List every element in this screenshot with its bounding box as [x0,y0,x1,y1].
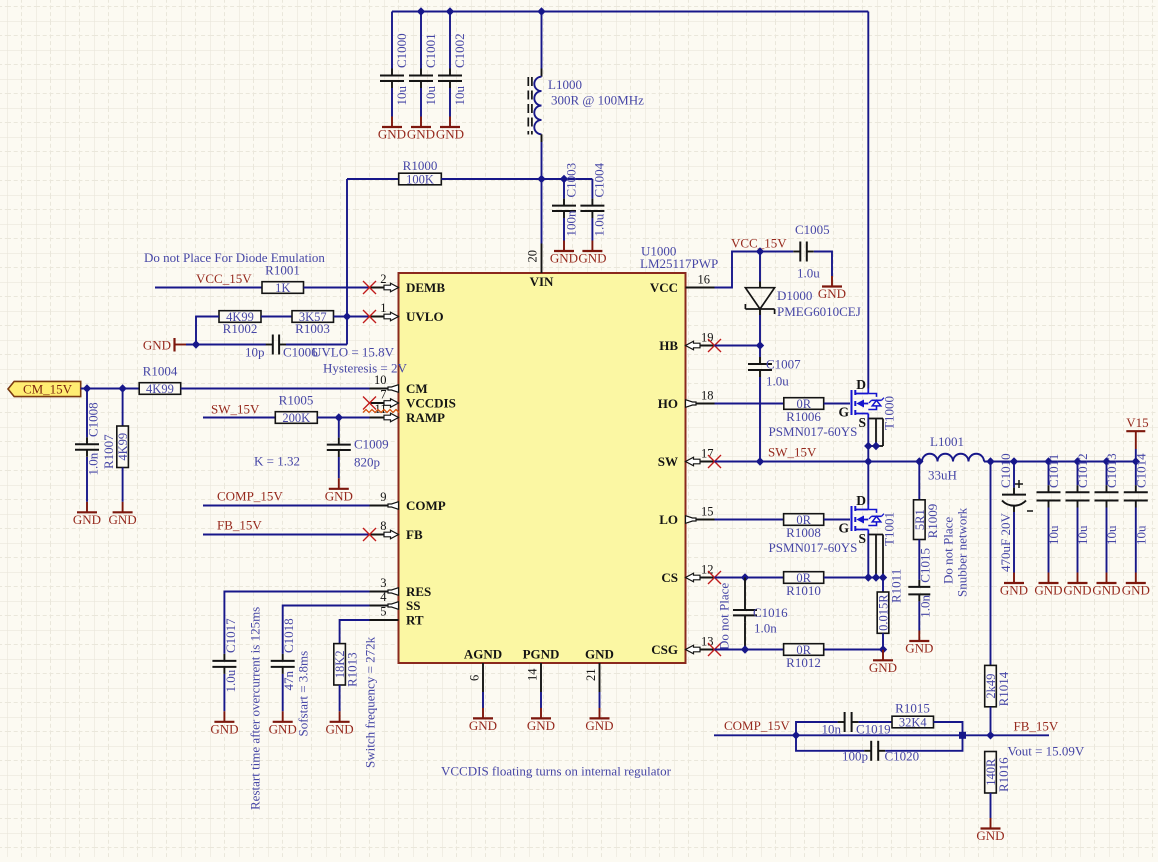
pin 17 SW [658,447,721,470]
svg-text:VCC_15V: VCC_15V [196,271,252,286]
pin 7 VCCDIS [363,388,456,411]
svg-text:GND: GND [1063,583,1091,598]
svg-text:GND: GND [818,286,846,301]
wire [282,674,284,711]
junction [792,731,995,739]
svg-text:33uH: 33uH [928,468,957,483]
wire [203,417,275,419]
svg-text:DEMB: DEMB [406,280,445,295]
svg-text:GND: GND [578,251,606,266]
svg-text:4K99: 4K99 [116,433,130,461]
svg-text:C1013: C1013 [1104,453,1119,488]
svg-text:PSMN017-60YS: PSMN017-60YS [769,424,858,439]
note [941,517,956,584]
wire FB row [714,734,1049,736]
wire C1002 drop [449,12,451,69]
svg-text:V15: V15 [1126,415,1148,430]
capacitor C1014 [1124,453,1149,545]
resistor R1009 [913,462,940,540]
svg-text:C1007: C1007 [766,357,801,372]
net label VCC_15V [731,236,787,251]
svg-text:32K4: 32K4 [899,716,928,730]
capacitor C1007 [748,346,801,389]
svg-text:GND: GND [1122,583,1150,598]
resistor R1006 [769,397,858,439]
pin 15 LO [659,505,714,528]
svg-text:AGND: AGND [464,647,502,662]
svg-text:HB: HB [659,338,678,353]
svg-text:R1008: R1008 [786,525,821,540]
capacitor C1015 [908,548,932,618]
svg-text:S: S [858,415,866,430]
wire SW [715,461,923,463]
pin 8 FB [363,519,423,542]
pin 9 COMP [370,490,446,513]
pin 5 RT [370,605,424,628]
junction [343,312,351,320]
svg-text:C1001: C1001 [423,33,438,68]
svg-text:RES: RES [406,584,431,599]
svg-text:GND: GND [976,828,1004,843]
wire [814,252,832,277]
wire C1000 drop [391,12,393,69]
note [248,607,263,810]
capacitor C1020 [842,741,919,764]
resistor R1007 [101,426,130,469]
wire [340,620,370,644]
svg-text:Do not Place: Do not Place [941,517,956,584]
ground [976,818,1004,843]
svg-text:CS: CS [661,570,678,585]
svg-text:FB_15V: FB_15V [217,518,262,533]
svg-text:11: 11 [374,402,386,416]
capacitor C1008 [75,402,101,475]
wire [81,388,140,390]
capacitor C1013 [1095,453,1120,545]
svg-text:C1009: C1009 [354,437,389,452]
svg-text:GND: GND [143,338,171,353]
junction [864,442,880,450]
wire [1135,449,1137,462]
resistor R1013 [333,644,359,687]
wire [563,218,565,241]
wire [86,389,88,438]
wire output rail [984,461,1136,463]
svg-text:820p: 820p [354,455,380,470]
svg-text:S: S [858,531,866,546]
diode D1000 [745,282,860,320]
svg-text:10n: 10n [822,722,842,737]
svg-text:CM_15V: CM_15V [23,381,73,396]
wire [304,287,370,289]
wire C1001 drop [420,12,422,69]
svg-text:C1015: C1015 [918,548,933,583]
svg-text:15: 15 [701,505,714,519]
resistor R1008 [769,513,858,555]
svg-text:14: 14 [526,668,540,681]
note [1008,744,1085,759]
svg-text:R1000: R1000 [403,158,438,173]
svg-text:C1000: C1000 [394,33,409,68]
wire [86,457,88,502]
svg-text:PGND: PGND [523,647,560,662]
svg-text:10u: 10u [452,86,467,106]
svg-text:R1001: R1001 [265,263,300,278]
transistor T1000 [838,377,896,430]
capacitor C1009 [327,437,389,470]
wire [122,468,124,502]
ground [1092,573,1120,598]
svg-text:6: 6 [468,675,482,681]
svg-text:Snubber network: Snubber network [955,507,970,597]
ground [407,117,435,142]
resistor R1003 [292,310,334,336]
svg-text:LM25117PWP: LM25117PWP [640,256,718,271]
wire VIN to pin 20 [541,179,543,244]
svg-text:L1001: L1001 [930,434,964,449]
svg-text:4: 4 [380,590,387,604]
svg-text:SW_15V: SW_15V [768,445,817,460]
wire [715,403,784,405]
pin 1 UVLO [363,301,444,324]
pin 11 RAMP [370,402,446,425]
junction [756,247,764,255]
svg-text:C1005: C1005 [795,222,830,237]
port CM_15V [8,381,81,396]
power V15 [1126,415,1148,449]
wire [715,345,761,347]
svg-text:RAMP: RAMP [406,410,445,425]
wire C1012 drop [1077,462,1079,486]
wire [1077,508,1079,573]
wire [1135,508,1137,573]
svg-text:GND: GND [1034,583,1062,598]
svg-text:GND: GND [407,127,435,142]
wire [203,534,370,536]
svg-text:GND: GND [269,721,297,736]
note [363,636,378,768]
svg-text:GND: GND [469,718,497,733]
inductor L1000 [528,69,644,143]
svg-text:D: D [856,377,866,392]
pin 12 CS [661,563,721,586]
svg-text:HO: HO [658,396,678,411]
wire [824,403,850,405]
wire [186,344,266,346]
capacitor C1012 [1066,453,1091,545]
note [717,583,732,650]
wire [181,388,370,390]
wire VIN top rail [392,11,868,13]
svg-text:C1018: C1018 [281,618,296,653]
svg-text:GND: GND [1092,583,1120,598]
svg-text:GND: GND [326,721,354,736]
ground [326,711,354,736]
svg-text:R1015: R1015 [895,701,930,716]
svg-text:R1009: R1009 [925,504,940,539]
wire [867,535,869,578]
svg-text:R1012: R1012 [786,655,821,670]
svg-text:PSMN017-60YS: PSMN017-60YS [769,540,858,555]
net label COMP_15V [724,718,790,733]
transistor T1001 [838,493,896,546]
T1000 source leads [868,419,883,447]
capacitor C1010 [998,453,1033,572]
svg-text:GND: GND [109,512,137,527]
svg-text:10p: 10p [245,345,265,360]
resistor R1004 [139,364,181,397]
note [254,454,300,469]
pin 2 DEMB [363,272,445,295]
wire [882,633,884,649]
ground [143,338,186,353]
svg-text:100K: 100K [406,173,434,187]
capacitor C1005 [793,222,829,281]
svg-text:C1012: C1012 [1075,453,1090,488]
svg-text:COMP_15V: COMP_15V [724,718,790,733]
svg-text:200K: 200K [282,411,310,425]
pin 6 AGND [464,647,502,709]
svg-text:5: 5 [380,605,386,619]
svg-text:1K: 1K [275,281,290,295]
note [441,764,672,779]
svg-text:C1008: C1008 [86,402,101,437]
wire [224,592,369,654]
wire C1011 drop [1048,462,1050,486]
svg-text:SW: SW [658,454,678,469]
note [323,361,407,376]
net label COMP_15V [217,489,283,504]
junction [986,457,1140,465]
wire [715,519,784,521]
junction [741,645,887,653]
junction [741,573,887,581]
ground [109,502,137,527]
svg-text:GND: GND [325,488,353,503]
svg-text:GND: GND [585,647,614,662]
svg-text:C1003: C1003 [563,163,578,198]
svg-text:C1004: C1004 [592,162,607,197]
ground [1122,573,1150,598]
ground [585,708,613,733]
wire [449,88,451,117]
wire [286,344,347,346]
note [955,507,970,597]
svg-text:16: 16 [698,273,711,287]
svg-text:PMEG6010CEJ: PMEG6010CEJ [777,304,861,319]
svg-text:1.0u: 1.0u [797,266,820,281]
wire [391,88,393,117]
svg-text:G: G [838,404,849,419]
svg-text:R1003: R1003 [295,321,330,336]
svg-text:C1017: C1017 [223,618,238,653]
ground [905,631,933,656]
resistor R1001 [262,263,304,296]
wire [759,252,761,282]
wire [715,649,884,651]
svg-text:C1011: C1011 [1046,454,1061,488]
capacitor C1002 [438,33,467,105]
resistor R1016 [984,752,1011,794]
svg-text:SS: SS [406,598,420,613]
capacitor C1011 [1037,454,1062,545]
resistor R1000 [399,158,442,187]
capacitor C1006 [245,335,318,360]
svg-text:R1013: R1013 [345,652,360,687]
wire [744,622,746,649]
svg-text:GND: GND [905,641,933,656]
wire [541,12,543,69]
wire [885,735,962,751]
resistor R1002 [219,310,261,336]
wire [1106,508,1108,573]
wire [918,601,920,630]
svg-text:100p: 100p [842,749,868,764]
net label VCC_15V [196,271,252,286]
wire [155,287,262,289]
ground [325,478,353,503]
pin 18 HO [658,389,715,412]
pin 4 SS [370,590,421,613]
svg-text:C1010: C1010 [998,453,1013,488]
pin 3 RES [370,576,432,599]
wire [541,142,543,179]
svg-text:1.0u: 1.0u [766,374,789,389]
svg-text:10u: 10u [423,86,438,106]
svg-text:C1002: C1002 [452,33,467,68]
wire C1013 drop [1106,462,1108,486]
wire [824,577,883,579]
junction [756,457,924,465]
wire [203,505,370,507]
svg-text:10u: 10u [394,86,409,106]
svg-text:CSG: CSG [651,642,678,657]
junction [756,341,764,349]
pin 19 HB [659,331,721,354]
resistor R1005 [275,393,317,426]
svg-text:GND: GND [436,127,464,142]
svg-text:GND: GND [210,721,238,736]
junction [192,340,200,348]
svg-text:LO: LO [659,512,678,527]
resistor R1012 [784,643,824,670]
svg-text:CM: CM [406,381,428,396]
ground [869,650,897,675]
svg-text:Hysteresis = 2V: Hysteresis = 2V [323,361,407,376]
wire [339,685,341,711]
wire [317,417,369,419]
wire [715,577,784,579]
resistor R1015 [892,701,934,730]
ground [469,708,497,733]
ground [378,117,406,142]
svg-text:R1016: R1016 [996,757,1011,792]
svg-text:GND: GND [585,718,613,733]
wire [441,178,592,180]
note [296,651,311,737]
wire [824,519,850,521]
wire [990,462,992,666]
compile-warning squiggle [363,410,399,413]
svg-text:GND: GND [869,660,897,675]
svg-text:GND: GND [1000,583,1028,598]
svg-text:21: 21 [584,669,598,682]
svg-text:FB_15V: FB_15V [1014,719,1059,734]
wire [283,606,370,654]
wire [918,540,920,580]
svg-text:VCC: VCC [650,280,678,295]
capacitor C1001 [409,33,438,105]
net label SW_15V [768,445,817,460]
svg-text:K = 1.32: K = 1.32 [254,454,300,469]
svg-text:GND: GND [550,251,578,266]
op-amp U1000 LM25117PWP body [399,273,686,663]
net label FB_15V [217,518,262,533]
svg-text:L1000: L1000 [548,77,582,92]
ground [269,711,297,736]
junction [537,175,568,183]
svg-text:FB: FB [406,527,423,542]
inductor L1001 [922,434,984,483]
resistor R1010 [784,571,824,598]
U1000 designator [641,244,676,259]
svg-text:G: G [838,520,849,535]
svg-text:Switch frequency = 272k: Switch frequency = 272k [363,636,378,768]
pin 20 VIN [526,244,555,290]
svg-text:R1002: R1002 [223,321,258,336]
capacitor C1003 [552,163,578,237]
wire [1013,512,1015,573]
pin 10 CM [370,373,428,396]
svg-text:Restart time after overcurrent: Restart time after overcurrent is 125ms [248,607,263,810]
capacitor C1004 [580,162,606,236]
wire [122,389,124,427]
svg-text:C1016: C1016 [753,605,788,620]
wire [1048,508,1050,573]
wire [759,377,761,462]
capacitor C1017 [212,618,238,693]
wire [223,674,225,711]
net label FB_15V [1014,719,1059,734]
svg-text:20: 20 [526,250,540,263]
T1001 source leads [868,535,883,578]
wire [990,707,992,736]
capacitor C1000 [380,33,409,105]
wire [334,316,370,318]
resistor R1014 [984,665,1011,706]
wire [347,178,399,180]
wire [934,722,963,735]
ground [527,708,555,733]
svg-text:VCCDIS: VCCDIS [406,396,456,411]
wire [591,218,593,241]
svg-text:R1011: R1011 [889,569,904,603]
svg-text:2: 2 [380,272,386,286]
wire [715,252,794,288]
capacitor C1016 [733,578,788,636]
wire T1001 drain [867,462,869,505]
net label SW_15V [211,402,260,417]
svg-text:470uF 20V: 470uF 20V [998,513,1013,572]
junction [83,384,127,392]
wire C1014 drop [1135,462,1137,486]
ground [1034,573,1062,598]
svg-text:UVLO: UVLO [406,309,444,324]
wire [261,316,292,318]
ground [436,117,464,142]
wire [796,735,864,751]
svg-text:1.0u: 1.0u [592,213,607,236]
